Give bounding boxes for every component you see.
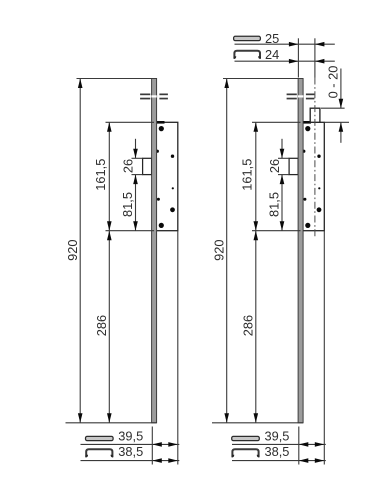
break symbol xyxy=(140,94,168,100)
svg-text:26: 26 xyxy=(121,159,136,173)
dimension 81,5 xyxy=(120,175,138,231)
dimension 24 line xyxy=(235,59,335,64)
dimension 286 xyxy=(94,231,112,423)
dimension 161,5 xyxy=(93,122,154,230)
extension line B xyxy=(314,38,316,77)
svg-text:161,5: 161,5 xyxy=(240,159,255,191)
flat faceplate profile symbol xyxy=(86,436,114,440)
latch detail at case top xyxy=(157,121,165,124)
svg-text:81,5: 81,5 xyxy=(120,192,135,217)
svg-text:161,5: 161,5 xyxy=(93,159,108,191)
width dimension 38,5 xyxy=(81,458,180,463)
svg-text:26: 26 xyxy=(267,159,282,173)
dimension 26 xyxy=(267,139,289,175)
case holes xyxy=(156,126,175,228)
dimension 25 line xyxy=(235,42,335,47)
break symbol xyxy=(287,94,315,100)
dimension 26 xyxy=(121,139,143,175)
extension lines bottom xyxy=(152,231,178,465)
U profile symbol xyxy=(86,449,112,457)
svg-text:286: 286 xyxy=(240,315,255,336)
svg-text:39,5: 39,5 xyxy=(265,429,290,444)
center dash-dot line xyxy=(314,78,316,238)
svg-text:24: 24 xyxy=(265,47,279,62)
svg-text:920: 920 xyxy=(211,240,226,261)
case holes xyxy=(302,126,321,228)
width dimension 39,5 xyxy=(81,442,180,447)
faceplate strip xyxy=(152,79,157,423)
latch detail at case top xyxy=(303,121,311,124)
svg-text:286: 286 xyxy=(94,315,109,336)
faceplate strip xyxy=(298,79,303,423)
follower block xyxy=(289,158,298,174)
dimension 0 - 20 xyxy=(321,66,349,143)
dimension 81,5 xyxy=(267,175,285,231)
flat faceplate profile symbol xyxy=(232,436,260,440)
dimension 286 xyxy=(240,231,258,423)
svg-text:39,5: 39,5 xyxy=(118,429,143,444)
follower block xyxy=(143,158,152,174)
dimension 920 xyxy=(65,79,157,423)
width dimension 39,5 xyxy=(232,442,326,447)
svg-text:81,5: 81,5 xyxy=(267,192,282,217)
top flat profile symbol xyxy=(234,36,261,40)
lock case body xyxy=(154,122,178,230)
svg-text:38,5: 38,5 xyxy=(265,444,290,459)
extension lines bottom xyxy=(299,231,325,465)
dimension 161,5 xyxy=(240,122,301,230)
top U profile symbol xyxy=(234,51,260,59)
dimension 920 xyxy=(211,79,303,423)
extension line A xyxy=(297,38,299,77)
svg-text:920: 920 xyxy=(65,240,80,261)
latch bolt xyxy=(310,108,320,122)
width dimension 38,5 xyxy=(232,458,326,463)
lock case body xyxy=(301,122,325,230)
U profile symbol xyxy=(232,449,258,457)
svg-text:38,5: 38,5 xyxy=(118,444,143,459)
svg-text:0 - 20: 0 - 20 xyxy=(326,66,341,99)
